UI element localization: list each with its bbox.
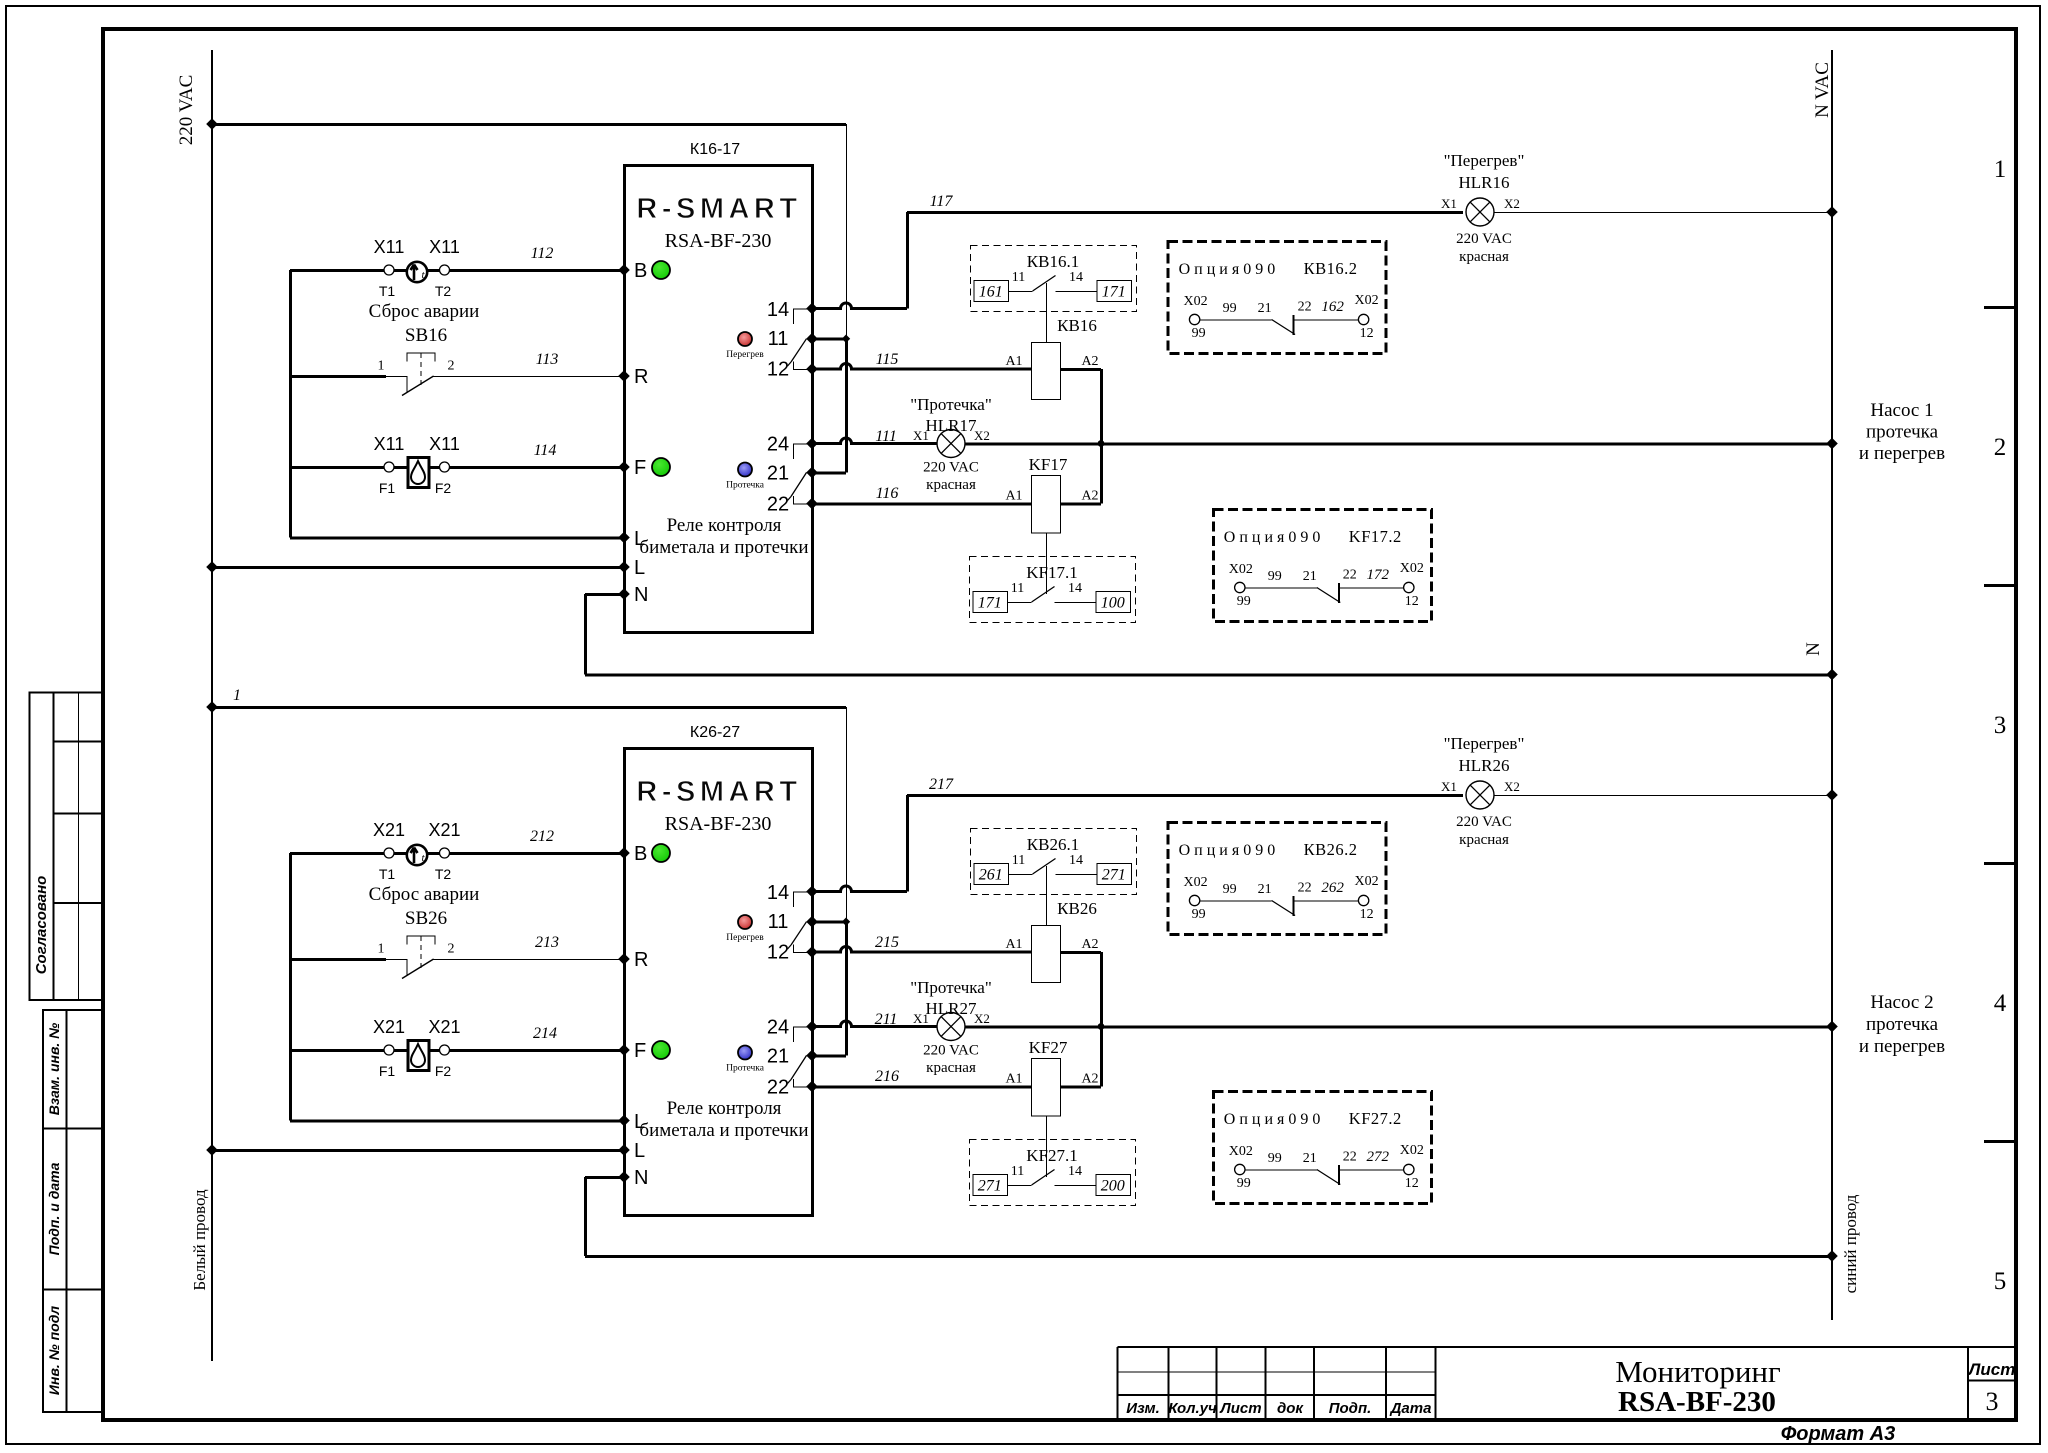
svg-text:Взам. инв. №: Взам. инв. № <box>46 1023 62 1115</box>
svg-text:262: 262 <box>1321 880 1344 896</box>
svg-text:99: 99 <box>1237 1176 1251 1191</box>
svg-text:2: 2 <box>448 942 455 957</box>
svg-text:21: 21 <box>767 1046 789 1068</box>
svg-text:14: 14 <box>767 299 789 321</box>
svg-text:Насос 1: Насос 1 <box>1870 400 1933 421</box>
svg-text:А2: А2 <box>1081 1072 1098 1087</box>
svg-text:12: 12 <box>1405 594 1419 609</box>
svg-text:биметала и протечки: биметала и протечки <box>639 537 808 558</box>
wire: vertical feeder right of module <box>846 124 848 339</box>
left branch vertical <box>289 270 292 538</box>
svg-text:99: 99 <box>1223 882 1237 897</box>
svg-text:99: 99 <box>1192 907 1206 922</box>
wire 217 overheat lamp row <box>907 794 1463 797</box>
svg-text:Согласовано: Согласовано <box>33 876 50 975</box>
module left pins B R F L L N <box>618 264 630 276</box>
svg-text:99: 99 <box>1268 1151 1282 1166</box>
svg-text:261: 261 <box>979 867 1003 884</box>
svg-text:синий провод: синий провод <box>1841 1194 1860 1293</box>
module left pins B R F L L N <box>618 847 630 859</box>
svg-text:14: 14 <box>1069 270 1083 285</box>
svg-text:21: 21 <box>767 463 789 485</box>
svg-text:красная: красная <box>926 1060 976 1076</box>
relay module К16-17 RSA-BF-230 <box>618 141 818 633</box>
wire N to N bus <box>585 1176 624 1179</box>
auxiliary contact KF17.1 (dashed) <box>970 557 1136 623</box>
wire: vertical feeder right of module <box>846 707 848 922</box>
svg-text:12: 12 <box>1360 326 1374 341</box>
svg-text:N: N <box>634 1167 648 1189</box>
module right pins 14 11 12 24 21 22 with changeover contacts <box>806 886 818 898</box>
svg-text:Перегрев: Перегрев <box>726 933 764 943</box>
svg-text:111: 111 <box>875 428 897 445</box>
svg-text:21: 21 <box>1303 1151 1317 1166</box>
svg-text:Белый провод: Белый провод <box>190 1189 209 1291</box>
svg-text:Сброс аварии: Сброс аварии <box>369 301 480 322</box>
svg-text:X02: X02 <box>1184 294 1208 309</box>
svg-text:3: 3 <box>1986 1387 1999 1416</box>
svg-text:1: 1 <box>378 359 385 374</box>
svg-text:L: L <box>634 1140 645 1162</box>
svg-text:А2: А2 <box>1081 354 1098 369</box>
terminal X F1 <box>384 1045 394 1055</box>
option relay contact box Опция090 KF17.2 <box>1213 510 1431 622</box>
svg-text:12: 12 <box>1360 907 1374 922</box>
svg-text:КВ16: КВ16 <box>1057 316 1097 335</box>
wire 116 to coil KF A1 <box>812 503 1031 506</box>
svg-text:N VAC: N VAC <box>1812 62 1833 118</box>
svg-text:X21: X21 <box>373 820 405 840</box>
coil A2 wires to lamp row junction <box>1060 951 1101 954</box>
svg-text:"Протечка": "Протечка" <box>910 395 992 414</box>
approval box Согласовано <box>30 693 103 1000</box>
svg-text:X21: X21 <box>428 820 460 840</box>
blue LED Протечка <box>738 463 752 477</box>
blue LED Протечка <box>738 1046 752 1060</box>
terminal X F2 <box>440 1045 450 1055</box>
terminal X T2 <box>440 848 450 858</box>
relay coil КВ16 <box>1032 343 1061 400</box>
svg-text:RSA-BF-230: RSA-BF-230 <box>665 230 772 252</box>
wire 211 lamp row to N bus <box>812 1021 937 1027</box>
svg-text:214: 214 <box>533 1025 557 1042</box>
svg-text:B: B <box>634 260 647 282</box>
svg-text:X11: X11 <box>374 237 405 257</box>
svg-text:113: 113 <box>536 351 559 368</box>
svg-text:1: 1 <box>233 687 241 704</box>
svg-text:RSA-BF-230: RSA-BF-230 <box>1618 1386 1776 1418</box>
svg-text:КВ26.1: КВ26.1 <box>1027 835 1079 854</box>
svg-text:99: 99 <box>1192 326 1206 341</box>
svg-text:F: F <box>634 1040 646 1062</box>
svg-text:271: 271 <box>978 1178 1002 1195</box>
terminal X T1 <box>384 265 394 275</box>
red LED Перегрев <box>738 332 752 346</box>
wire L2 from bus <box>212 566 624 569</box>
svg-text:T2: T2 <box>435 283 452 299</box>
indicator lamp HLR26 Перегрев <box>1466 781 1494 809</box>
indicator lamp HLR16 Перегрев <box>1466 198 1494 226</box>
svg-text:HLR26: HLR26 <box>1459 756 1510 775</box>
wire 117 overheat lamp row <box>907 211 1463 214</box>
svg-text:KF17.1: KF17.1 <box>1026 563 1077 582</box>
svg-text:220 VAC: 220 VAC <box>923 1043 979 1059</box>
svg-text:О п ц и я 0 9 0: О п ц и я 0 9 0 <box>1224 529 1321 546</box>
svg-text:21: 21 <box>1303 569 1317 584</box>
svg-text:Подп. и дата: Подп. и дата <box>46 1162 62 1255</box>
svg-text:Сброс аварии: Сброс аварии <box>369 884 480 905</box>
svg-text:А1: А1 <box>1005 1072 1022 1087</box>
svg-text:и перегрев: и перегрев <box>1859 443 1945 464</box>
svg-text:220 VAC: 220 VAC <box>176 75 197 146</box>
svg-text:X1: X1 <box>1441 196 1457 211</box>
wire 14 to lamp riser <box>906 795 909 892</box>
svg-text:14: 14 <box>1068 581 1082 596</box>
svg-text:99: 99 <box>1268 569 1282 584</box>
svg-text:Реле контроля: Реле контроля <box>667 1098 782 1119</box>
svg-text:12: 12 <box>767 359 789 381</box>
green LED F <box>652 458 670 476</box>
svg-text:22: 22 <box>1298 881 1312 896</box>
svg-text:1: 1 <box>378 942 385 957</box>
svg-text:Кол.уч: Кол.уч <box>1168 1400 1217 1417</box>
svg-text:T2: T2 <box>435 866 452 882</box>
N VAC bus <box>1831 50 1833 1320</box>
svg-text:T1: T1 <box>379 283 396 299</box>
svg-text:X11: X11 <box>429 237 460 257</box>
auxiliary contact КВ26.1 (dashed) <box>971 829 1137 895</box>
svg-text:211: 211 <box>875 1011 898 1028</box>
left branch vertical <box>289 853 292 1121</box>
svg-text:КВ16.2: КВ16.2 <box>1304 259 1358 278</box>
svg-text:HLR17: HLR17 <box>926 416 978 435</box>
svg-text:117: 117 <box>930 193 954 210</box>
svg-text:N: N <box>1803 642 1824 656</box>
svg-text:А1: А1 <box>1005 937 1022 952</box>
svg-text:116: 116 <box>876 485 899 502</box>
svg-text:F2: F2 <box>435 1063 452 1079</box>
auxiliary contact KF27.1 (dashed) <box>970 1140 1136 1206</box>
svg-text:R: R <box>634 366 648 388</box>
svg-text:161: 161 <box>979 284 1003 301</box>
wire 112 row B <box>290 269 624 272</box>
svg-text:11: 11 <box>768 328 789 350</box>
indicator lamp HLR27 Протечка <box>937 1013 965 1041</box>
option relay contact box Опция090 КВ16.2 <box>1168 242 1386 354</box>
wire L1 <box>290 1120 624 1123</box>
terminal X F1 <box>384 462 394 472</box>
wire 14 to lamp riser <box>906 212 909 309</box>
svg-text:и перегрев: и перегрев <box>1859 1036 1945 1057</box>
svg-text:А1: А1 <box>1005 354 1022 369</box>
thermal reset symbol <box>407 262 427 282</box>
svg-text:красная: красная <box>1459 832 1509 848</box>
svg-text:B: B <box>634 843 647 865</box>
svg-text:R: R <box>634 949 648 971</box>
svg-text:215: 215 <box>875 934 899 951</box>
svg-text:22: 22 <box>1343 568 1357 583</box>
svg-text:X02: X02 <box>1400 561 1424 576</box>
svg-text:Подп.: Подп. <box>1329 1400 1372 1417</box>
svg-text:Дата: Дата <box>1389 1400 1432 1417</box>
left frame column Взам/Подп/Инв <box>43 1010 103 1412</box>
relay coil KF17 <box>1032 476 1061 534</box>
svg-text:Изм.: Изм. <box>1126 1400 1160 1417</box>
svg-text:F1: F1 <box>379 1063 396 1079</box>
svg-text:"Перегрев": "Перегрев" <box>1444 734 1525 753</box>
svg-text:3: 3 <box>1994 712 2007 739</box>
svg-text:L: L <box>634 557 645 579</box>
svg-text:11: 11 <box>1012 853 1025 868</box>
svg-text:21: 21 <box>1258 301 1272 316</box>
wire 114 row F <box>290 466 624 469</box>
option relay contact box Опция090 КВ26.2 <box>1168 823 1386 935</box>
svg-text:171: 171 <box>978 595 1002 612</box>
svg-text:F1: F1 <box>379 480 396 496</box>
svg-text:171: 171 <box>1102 284 1126 301</box>
svg-text:212: 212 <box>530 828 554 845</box>
svg-text:272: 272 <box>1367 1149 1390 1165</box>
svg-text:Реле контроля: Реле контроля <box>667 515 782 536</box>
red LED Перегрев <box>738 915 752 929</box>
svg-text:11: 11 <box>1012 270 1025 285</box>
svg-text:F: F <box>634 457 646 479</box>
wire 212 row B <box>290 852 624 855</box>
svg-text:22: 22 <box>767 494 789 516</box>
svg-text:К26-27: К26-27 <box>690 724 740 741</box>
svg-text:22: 22 <box>1343 1150 1357 1165</box>
svg-text:99: 99 <box>1223 301 1237 316</box>
svg-text:док: док <box>1277 1400 1304 1417</box>
svg-text:R-SMART: R-SMART <box>636 193 801 225</box>
svg-text:1: 1 <box>1994 156 2007 183</box>
svg-text:112: 112 <box>531 245 554 262</box>
svg-text:О п ц и я 0 9 0: О п ц и я 0 9 0 <box>1179 842 1276 859</box>
leak sensor symbol <box>408 1041 429 1071</box>
svg-text:"Перегрев": "Перегрев" <box>1444 151 1525 170</box>
green LED B <box>652 844 670 862</box>
svg-text:100: 100 <box>1101 595 1125 612</box>
svg-text:SB16: SB16 <box>405 325 447 346</box>
svg-text:N: N <box>634 584 648 606</box>
svg-text:X2: X2 <box>1504 779 1520 794</box>
svg-text:Протечка: Протечка <box>726 1064 765 1074</box>
indicator lamp HLR17 Протечка <box>937 430 965 458</box>
terminal X F2 <box>440 462 450 472</box>
svg-text:99: 99 <box>1237 594 1251 609</box>
svg-text:22: 22 <box>767 1077 789 1099</box>
relay module К26-27 RSA-BF-230 <box>618 724 818 1216</box>
svg-text:А1: А1 <box>1005 489 1022 504</box>
svg-text:X11: X11 <box>429 434 460 454</box>
svg-text:"Протечка": "Протечка" <box>910 978 992 997</box>
auxiliary contact КВ16.1 (dashed) <box>971 246 1137 312</box>
svg-text:HLR27: HLR27 <box>926 999 978 1018</box>
wire L1 <box>290 537 624 540</box>
svg-text:R-SMART: R-SMART <box>636 776 801 808</box>
module right pins 14 11 12 24 21 22 with changeover contacts <box>806 303 818 315</box>
svg-text:12: 12 <box>767 942 789 964</box>
relay coil KF27 <box>1032 1059 1061 1117</box>
svg-text:11: 11 <box>768 911 789 933</box>
svg-text:X11: X11 <box>374 434 405 454</box>
svg-text:Лист: Лист <box>1219 1400 1261 1417</box>
svg-text:SB26: SB26 <box>405 908 447 929</box>
svg-text:красная: красная <box>926 477 976 493</box>
svg-text:Лист: Лист <box>1967 1360 2016 1379</box>
svg-text:X21: X21 <box>428 1017 460 1037</box>
svg-text:172: 172 <box>1367 567 1390 583</box>
svg-text:T1: T1 <box>379 866 396 882</box>
svg-text:RSA-BF-230: RSA-BF-230 <box>665 813 772 835</box>
title block <box>1118 1347 2016 1420</box>
svg-text:14: 14 <box>767 882 789 904</box>
svg-text:220 VAC: 220 VAC <box>1456 231 1512 247</box>
svg-text:11: 11 <box>1011 1164 1024 1179</box>
svg-text:2: 2 <box>448 359 455 374</box>
svg-text:213: 213 <box>535 934 559 951</box>
svg-text:красная: красная <box>1459 249 1509 265</box>
svg-text:5: 5 <box>1994 1268 2007 1295</box>
wire 111 lamp row to N bus <box>812 438 937 443</box>
svg-text:2: 2 <box>1994 434 2007 461</box>
svg-text:KF17: KF17 <box>1029 455 1068 474</box>
leak sensor symbol <box>408 458 429 488</box>
relay coil КВ26 <box>1032 926 1061 983</box>
svg-text:12: 12 <box>1405 1176 1419 1191</box>
svg-text:14: 14 <box>1069 853 1083 868</box>
pushbutton SB26 NC <box>290 958 386 961</box>
wire N to N bus <box>585 593 624 596</box>
svg-text:114: 114 <box>534 442 557 459</box>
svg-text:14: 14 <box>1068 1164 1082 1179</box>
svg-text:217: 217 <box>929 776 954 793</box>
svg-text:220 VAC: 220 VAC <box>923 460 979 476</box>
svg-text:21: 21 <box>1258 882 1272 897</box>
wire 216 to coil KF A1 <box>812 1086 1031 1089</box>
svg-text:А2: А2 <box>1081 937 1098 952</box>
svg-text:X02: X02 <box>1355 874 1379 889</box>
pushbutton SB16 NC <box>290 375 386 378</box>
svg-text:11: 11 <box>1011 581 1024 596</box>
svg-text:X2: X2 <box>1504 196 1520 211</box>
svg-text:X02: X02 <box>1229 562 1253 577</box>
svg-text:О п ц и я 0 9 0: О п ц и я 0 9 0 <box>1224 1111 1321 1128</box>
svg-text:КВ26: КВ26 <box>1057 899 1097 918</box>
svg-text:X1: X1 <box>1441 779 1457 794</box>
option relay contact box Опция090 KF27.2 <box>1213 1092 1431 1204</box>
svg-text:X02: X02 <box>1355 293 1379 308</box>
svg-text:162: 162 <box>1321 299 1344 315</box>
svg-text:22: 22 <box>1298 300 1312 315</box>
green LED F <box>652 1041 670 1059</box>
junction <box>842 335 850 343</box>
svg-text:Насос 2: Насос 2 <box>1870 992 1933 1013</box>
svg-text:Инв. № подл: Инв. № подл <box>46 1306 62 1395</box>
svg-text:216: 216 <box>875 1068 899 1085</box>
wire: feeder from 220VAC bus <box>212 706 846 709</box>
wire L2 from bus <box>212 1149 624 1152</box>
svg-text:HLR16: HLR16 <box>1459 173 1510 192</box>
svg-text:Мониторинг: Мониторинг <box>1615 1354 1781 1389</box>
svg-text:КВ26.2: КВ26.2 <box>1304 840 1358 859</box>
svg-text:200: 200 <box>1101 1178 1125 1195</box>
svg-text:КВ16.1: КВ16.1 <box>1027 252 1079 271</box>
svg-text:X21: X21 <box>373 1017 405 1037</box>
thermal reset symbol <box>407 845 427 865</box>
svg-text:271: 271 <box>1102 867 1126 884</box>
svg-text:115: 115 <box>876 351 899 368</box>
220 VAC bus <box>211 50 213 1361</box>
svg-text:24: 24 <box>767 434 789 456</box>
svg-text:К16-17: К16-17 <box>690 141 740 158</box>
wire: feeder from 220VAC bus <box>212 123 846 126</box>
wire 214 row F <box>290 1049 624 1052</box>
svg-text:биметала и протечки: биметала и протечки <box>639 1120 808 1141</box>
svg-text:220 VAC: 220 VAC <box>1456 814 1512 830</box>
svg-text:KF27.2: KF27.2 <box>1349 1109 1402 1128</box>
wire 215 to coil A1 <box>812 947 1031 953</box>
svg-text:Протечка: Протечка <box>726 481 765 491</box>
svg-text:Перегрев: Перегрев <box>726 350 764 360</box>
terminal X T1 <box>384 848 394 858</box>
terminal X T2 <box>440 265 450 275</box>
svg-text:X02: X02 <box>1184 875 1208 890</box>
svg-text:X02: X02 <box>1229 1144 1253 1159</box>
coil A2 wires to lamp row junction <box>1060 368 1101 371</box>
svg-text:протечка: протечка <box>1866 422 1939 443</box>
svg-text:протечка: протечка <box>1866 1014 1939 1035</box>
svg-text:KF27.1: KF27.1 <box>1026 1146 1077 1165</box>
wire 115 to coil A1 <box>812 364 1031 370</box>
svg-text:X02: X02 <box>1400 1143 1424 1158</box>
svg-text:KF27: KF27 <box>1029 1038 1068 1057</box>
svg-text:О п ц и я 0 9 0: О п ц и я 0 9 0 <box>1179 261 1276 278</box>
svg-text:4: 4 <box>1994 990 2007 1017</box>
svg-text:F2: F2 <box>435 480 452 496</box>
svg-text:А2: А2 <box>1081 489 1098 504</box>
junction <box>842 918 850 926</box>
svg-text:KF17.2: KF17.2 <box>1349 527 1402 546</box>
svg-text:Формат А3: Формат А3 <box>1781 1423 1896 1445</box>
green LED B <box>652 261 670 279</box>
svg-text:24: 24 <box>767 1017 789 1039</box>
